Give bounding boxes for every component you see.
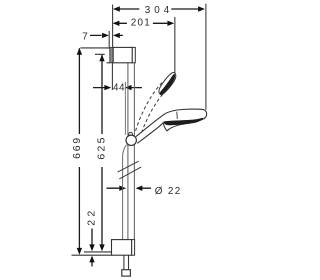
svg-text:669: 669 [72, 138, 83, 159]
svg-text:44: 44 [113, 83, 125, 94]
svg-text:22: 22 [87, 210, 98, 225]
svg-text:7: 7 [82, 31, 88, 42]
svg-text:304: 304 [145, 5, 170, 16]
svg-text:625: 625 [96, 137, 107, 159]
svg-text:201: 201 [131, 18, 151, 29]
svg-text:Ø 22: Ø 22 [155, 186, 181, 197]
